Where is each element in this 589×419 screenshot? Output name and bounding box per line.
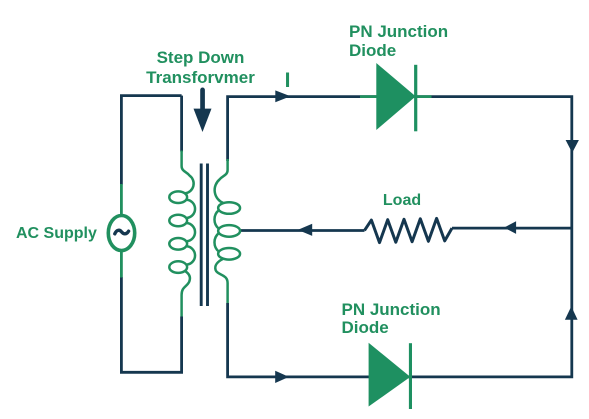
svg-text:I: I [285,69,291,92]
svg-text:Step Down: Step Down [157,48,245,67]
svg-text:Diode: Diode [349,41,396,60]
svg-text:Transforvmer: Transforvmer [146,68,255,87]
svg-text:Diode: Diode [342,318,389,337]
svg-text:Load: Load [383,192,421,209]
svg-text:PN Junction: PN Junction [342,300,441,319]
svg-text:AC Supply: AC Supply [16,225,97,242]
svg-text:PN Junction: PN Junction [349,22,448,41]
